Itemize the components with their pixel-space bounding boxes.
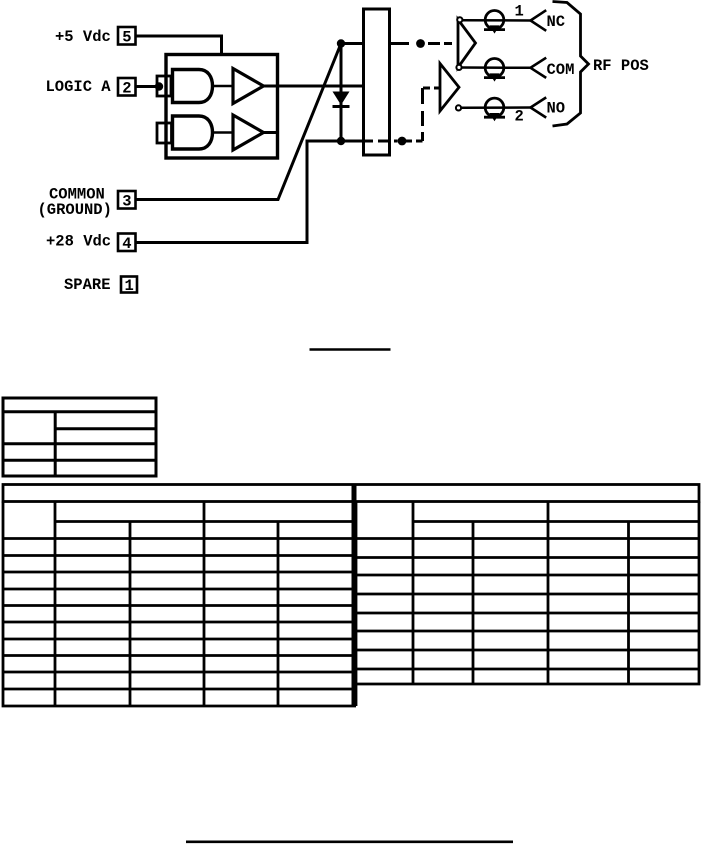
coax feedthrough NC <box>484 10 505 33</box>
big table right outer <box>356 502 699 685</box>
right header bottom <box>356 537 699 540</box>
svg-text:1: 1 <box>125 277 134 295</box>
AND gate 1 <box>173 70 213 103</box>
wire box2 to AND inputs <box>136 85 159 88</box>
svg-text:RF POS: RF POS <box>593 57 649 75</box>
small table row line 2 <box>3 442 156 445</box>
wire buffer2 output stub <box>263 131 278 134</box>
wire gate2 to buffer2 <box>213 131 234 134</box>
wire box4 to coil bottom <box>136 141 373 243</box>
svg-text:COM: COM <box>547 61 575 79</box>
svg-text:NC: NC <box>547 13 566 31</box>
svg-text:3: 3 <box>122 193 131 211</box>
NC wire <box>463 19 532 22</box>
terminal box 2 <box>118 78 136 98</box>
left col A <box>54 502 57 707</box>
diode CR1 <box>333 92 350 107</box>
svg-text:SPARE: SPARE <box>64 276 111 294</box>
pivot circle NO <box>456 105 461 110</box>
big table header band <box>3 485 699 502</box>
IC U1 box <box>166 55 278 159</box>
junction dot top <box>337 39 345 47</box>
left data rows <box>3 556 356 690</box>
right data rows <box>356 558 699 670</box>
wire bottom through coil <box>378 140 398 143</box>
svg-text:(GROUND): (GROUND) <box>38 201 112 219</box>
junction dot input <box>155 82 163 90</box>
relay coil K1 <box>364 9 390 155</box>
right col G <box>472 522 475 685</box>
terminal box 4 <box>118 234 136 254</box>
small table right sub line <box>55 427 156 430</box>
svg-text:4: 4 <box>122 235 131 253</box>
brace RF POS <box>553 2 589 127</box>
wire buffer1 output to relay coil <box>263 85 364 88</box>
left col B <box>129 522 132 707</box>
armature blade NO <box>440 64 459 112</box>
left col C <box>203 502 206 707</box>
small table header line <box>3 410 156 413</box>
small table outer <box>3 398 156 476</box>
right col H <box>547 502 550 685</box>
terminal box 5 <box>118 27 136 47</box>
figure underline <box>310 348 391 351</box>
pivot circle NC <box>457 17 462 22</box>
svg-text:LOGIC A: LOGIC A <box>46 78 112 96</box>
right col F <box>412 502 415 685</box>
label COMMON (GROUND) <box>38 186 112 220</box>
wire node to coil top <box>341 42 364 45</box>
armature blade NC-COM <box>458 20 476 68</box>
chevron NO <box>531 97 547 117</box>
diode branch wire <box>340 44 343 142</box>
wire box5 to IC <box>136 36 222 56</box>
terminal box 1 <box>121 277 137 296</box>
linkage bottom dash-dot <box>406 88 441 141</box>
right header sub line <box>413 520 699 523</box>
svg-text:2: 2 <box>515 108 524 126</box>
left header sub line <box>55 520 356 523</box>
coax feedthrough NO <box>484 98 505 121</box>
svg-text:NO: NO <box>547 100 566 118</box>
svg-text:+28 Vdc: +28 Vdc <box>46 233 111 251</box>
input stub gate2 <box>157 123 172 143</box>
chevron COM <box>531 58 547 78</box>
right col I <box>627 522 630 685</box>
buffer U1B <box>233 115 264 150</box>
svg-text:5: 5 <box>122 29 131 47</box>
NO wire <box>462 106 532 109</box>
COM wire <box>462 66 532 69</box>
junction dot bottom <box>337 137 345 145</box>
pivot circle COM <box>456 65 461 70</box>
linkage top dashed <box>391 42 452 45</box>
left header bottom <box>3 537 356 540</box>
chevron NC <box>531 10 547 31</box>
linkage dot bottom <box>398 137 407 146</box>
wire gate1 to buffer1 <box>213 85 234 88</box>
AND gate 2 <box>173 116 213 149</box>
left col D <box>277 522 280 707</box>
input stub gate1 <box>157 76 171 96</box>
big table center divider <box>352 485 357 706</box>
wire box3 to diode node diagonal <box>136 44 341 200</box>
bottom rule <box>186 840 513 843</box>
coax feedthrough COM <box>484 59 505 82</box>
svg-text:+5 Vdc: +5 Vdc <box>55 28 111 46</box>
svg-text:1: 1 <box>515 3 524 21</box>
linkage dot top <box>416 39 425 48</box>
small table row line 3 <box>3 459 156 462</box>
svg-text:2: 2 <box>122 80 131 98</box>
terminal box 3 <box>118 191 136 211</box>
buffer U1A <box>233 69 264 104</box>
big table left outer <box>3 502 356 707</box>
small table column divider <box>54 412 57 476</box>
